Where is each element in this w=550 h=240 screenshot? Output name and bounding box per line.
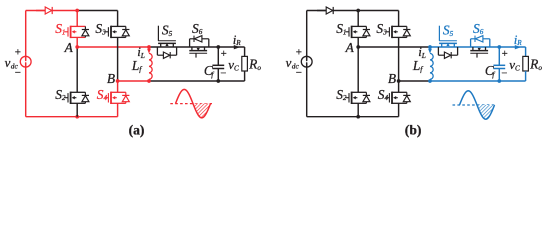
- svg-text:L: L: [140, 51, 145, 60]
- transistor S4 (b): [398, 81, 400, 92]
- inductor Lf (a): [149, 53, 152, 79]
- svg-text:3: 3: [382, 28, 387, 36]
- waveform icon (b): [453, 104, 496, 106]
- transistor S3 (b): [398, 11, 400, 27]
- wire top rail source segment (b): [307, 10, 359, 12]
- switch S6 (b): [472, 47, 474, 51]
- wire bottom rail (b): [307, 116, 399, 118]
- wire top rail right segment (a): [77, 10, 117, 12]
- svg-text:B: B: [388, 71, 396, 86]
- wire top rail right segment (b): [358, 10, 398, 12]
- diode D (a): [36, 10, 45, 12]
- svg-text:+: +: [221, 49, 227, 60]
- node Cf top (b): [497, 45, 501, 49]
- svg-text:+: +: [15, 46, 21, 58]
- transistor S2 (b): [357, 47, 359, 92]
- node A (a): [75, 45, 79, 49]
- wire top rail source segment (a): [26, 10, 77, 12]
- svg-text:1: 1: [62, 28, 66, 36]
- diode D (b): [317, 10, 326, 12]
- svg-text:2: 2: [343, 94, 347, 102]
- arrow iR (a): [234, 45, 240, 49]
- wire node B to inductor bottom (b): [399, 80, 430, 82]
- source vdc (a): [20, 56, 31, 67]
- svg-text:−: −: [220, 68, 226, 79]
- svg-text:v: v: [286, 55, 292, 70]
- wire node A to inductor (b): [358, 46, 430, 48]
- svg-text:(a): (a): [129, 123, 145, 139]
- switch S5 (b): [441, 43, 443, 47]
- svg-text:5: 5: [169, 30, 173, 38]
- svg-text:2: 2: [62, 94, 66, 102]
- arrow iL (a): [148, 48, 150, 49]
- svg-text:B: B: [107, 71, 115, 86]
- svg-text:L: L: [412, 58, 420, 73]
- svg-text:(b): (b): [405, 123, 422, 139]
- svg-text:−: −: [296, 67, 302, 79]
- svg-text:6: 6: [199, 28, 203, 36]
- wire output bottom (a): [149, 80, 245, 82]
- svg-text:o: o: [257, 64, 261, 72]
- svg-text:1: 1: [343, 28, 347, 36]
- arrow iR (b): [515, 45, 521, 49]
- transistor S2 (a): [76, 47, 78, 92]
- node inductor top (b): [428, 45, 432, 49]
- svg-text:+: +: [296, 46, 302, 58]
- switch S6 (a): [191, 47, 193, 51]
- capacitor Cf (b): [498, 47, 500, 65]
- waveform icon (a): [170, 103, 212, 105]
- node top junction (a): [75, 9, 79, 13]
- wire bottom rail (a): [26, 116, 118, 118]
- svg-text:A: A: [345, 40, 355, 55]
- svg-text:A: A: [64, 40, 74, 55]
- svg-text:5: 5: [450, 30, 454, 38]
- node B (b): [397, 79, 401, 83]
- svg-text:R: R: [248, 57, 257, 72]
- node Cf bottom (b): [497, 79, 501, 83]
- transistor S4 (a): [117, 81, 119, 92]
- node B (a): [116, 79, 120, 83]
- node top junction (b): [356, 9, 360, 13]
- svg-text:−: −: [501, 68, 507, 79]
- transistor S1 (b): [357, 11, 359, 27]
- svg-text:6: 6: [480, 28, 484, 36]
- arrow iL (b): [429, 48, 431, 49]
- svg-text:o: o: [538, 64, 542, 72]
- svg-text:4: 4: [385, 94, 389, 102]
- svg-text:C: C: [234, 65, 239, 73]
- wire inductor to output top (b): [430, 46, 526, 48]
- svg-text:4: 4: [104, 94, 108, 102]
- node bottom junction (b): [356, 115, 360, 119]
- node Cf bottom (a): [216, 79, 220, 83]
- svg-text:L: L: [131, 58, 139, 73]
- node inductor bottom (b): [428, 79, 432, 83]
- transistor S3 (a): [117, 11, 119, 27]
- svg-text:f: f: [492, 70, 495, 79]
- svg-text:−: −: [15, 67, 21, 79]
- capacitor Cf (a): [217, 47, 219, 65]
- node bottom junction (a): [75, 115, 79, 119]
- resistor Ro (b): [525, 47, 527, 56]
- svg-text:R: R: [529, 57, 538, 72]
- wire left rail (a): [25, 11, 27, 117]
- svg-text:v: v: [5, 55, 11, 70]
- svg-text:+: +: [502, 49, 508, 60]
- transistor S1 (a): [76, 11, 78, 27]
- wire node B to inductor bottom (a): [118, 80, 149, 82]
- wire node A to inductor (a): [77, 46, 149, 48]
- node Cf top (a): [216, 45, 220, 49]
- inductor Lf (b): [430, 53, 433, 79]
- resistor Ro (a): [244, 47, 246, 56]
- switch S5 (a): [160, 43, 162, 47]
- svg-text:C: C: [515, 65, 520, 73]
- wire output bottom (b): [430, 80, 526, 82]
- source vdc (b): [301, 56, 312, 67]
- svg-text:f: f: [420, 65, 423, 74]
- svg-text:f: f: [211, 70, 214, 79]
- node inductor top (a): [147, 45, 151, 49]
- svg-text:L: L: [421, 51, 426, 60]
- svg-text:R: R: [516, 39, 522, 47]
- svg-text:f: f: [139, 65, 142, 74]
- svg-text:3: 3: [101, 28, 106, 36]
- svg-text:R: R: [235, 39, 241, 47]
- wire inductor to output top (a): [149, 46, 245, 48]
- wire left rail (b): [306, 11, 308, 117]
- node A (b): [356, 45, 360, 49]
- node inductor bottom (a): [147, 79, 151, 83]
